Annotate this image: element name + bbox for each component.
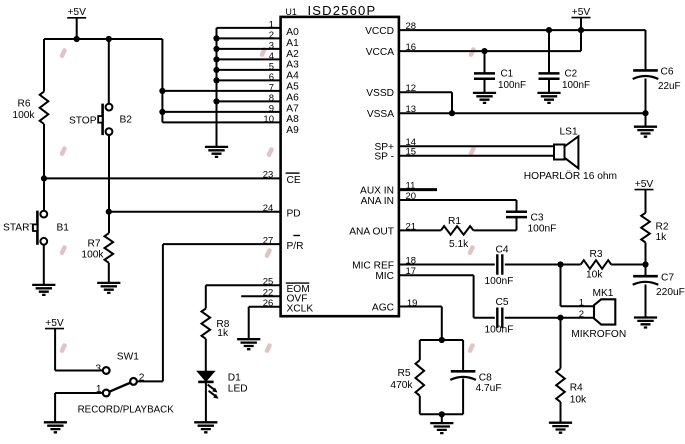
svg-text:+5V: +5V <box>635 179 654 190</box>
svg-text:100nF: 100nF <box>485 325 514 336</box>
svg-text:A0: A0 <box>286 27 299 38</box>
svg-text:3: 3 <box>269 40 274 51</box>
svg-text:VCCA: VCCA <box>366 47 395 58</box>
svg-text:100nF: 100nF <box>528 224 557 235</box>
svg-text:B2: B2 <box>120 115 133 126</box>
svg-text:100nF: 100nF <box>485 276 514 287</box>
svg-text:26: 26 <box>263 298 274 309</box>
svg-text:C2: C2 <box>565 69 578 80</box>
svg-text:1: 1 <box>269 19 274 30</box>
svg-text:470k: 470k <box>390 380 413 391</box>
svg-text:MK1: MK1 <box>593 288 614 299</box>
svg-text:1: 1 <box>579 298 584 309</box>
svg-text:1k: 1k <box>217 328 229 339</box>
svg-text:C1: C1 <box>501 69 514 80</box>
svg-text:D1: D1 <box>228 373 241 384</box>
svg-text:LED: LED <box>228 384 248 395</box>
svg-text:9: 9 <box>269 103 274 114</box>
svg-text:VSSA: VSSA <box>367 109 394 120</box>
svg-text:PD: PD <box>287 208 301 219</box>
svg-text:13: 13 <box>406 104 417 115</box>
svg-text:SP -: SP - <box>374 152 394 163</box>
svg-text:C4: C4 <box>496 245 509 256</box>
svg-text:15: 15 <box>406 147 417 158</box>
svg-text:ISD2560P: ISD2560P <box>308 3 377 18</box>
svg-text:2: 2 <box>269 30 274 41</box>
svg-text:R6: R6 <box>17 99 30 110</box>
svg-text:27: 27 <box>263 235 274 246</box>
svg-text:10: 10 <box>263 114 274 125</box>
svg-text:CE: CE <box>287 175 301 186</box>
svg-text:LS1: LS1 <box>560 127 578 138</box>
svg-text:100nF: 100nF <box>498 80 526 91</box>
svg-text:STOP: STOP <box>69 116 97 127</box>
svg-text:C3: C3 <box>531 213 544 224</box>
svg-text:A8: A8 <box>286 114 299 125</box>
svg-text:4: 4 <box>269 51 274 62</box>
svg-text:R5: R5 <box>397 368 410 379</box>
svg-text:10k: 10k <box>570 395 587 406</box>
svg-text:8: 8 <box>269 93 274 104</box>
svg-text:1k: 1k <box>656 232 668 243</box>
svg-text:MIC REF: MIC REF <box>352 260 394 271</box>
svg-text:220uF: 220uF <box>656 287 685 298</box>
svg-text:A7: A7 <box>286 103 299 114</box>
svg-text:1: 1 <box>96 384 102 395</box>
svg-text:3: 3 <box>95 364 101 375</box>
svg-text:OVF: OVF <box>287 293 308 304</box>
svg-text:R2: R2 <box>656 222 669 233</box>
svg-text:28: 28 <box>406 21 417 32</box>
svg-text:VSSD: VSSD <box>366 88 394 99</box>
svg-text:21: 21 <box>406 221 417 232</box>
svg-text:100k: 100k <box>81 250 104 261</box>
svg-text:A9: A9 <box>286 125 299 136</box>
svg-text:24: 24 <box>263 203 274 214</box>
svg-text:AUX IN: AUX IN <box>360 186 394 197</box>
svg-text:START: START <box>3 223 35 234</box>
svg-text:SW1: SW1 <box>117 352 139 363</box>
svg-text:23: 23 <box>263 170 274 181</box>
svg-text:XCLK: XCLK <box>287 304 314 315</box>
svg-text:100nF: 100nF <box>562 80 590 91</box>
svg-text:A3: A3 <box>286 60 299 71</box>
svg-text:10k: 10k <box>586 270 603 281</box>
svg-text:A2: A2 <box>286 49 299 60</box>
svg-text:C6: C6 <box>661 67 674 78</box>
svg-text:25: 25 <box>263 277 274 288</box>
svg-text:R7: R7 <box>87 239 100 250</box>
svg-text:U1: U1 <box>286 7 297 17</box>
svg-text:2: 2 <box>579 309 584 320</box>
svg-text:R4: R4 <box>570 383 583 394</box>
svg-text:RECORD/PLAYBACK: RECORD/PLAYBACK <box>78 405 175 416</box>
svg-text:5.1k: 5.1k <box>449 239 469 250</box>
svg-text:MIC: MIC <box>375 271 394 282</box>
svg-text:R1: R1 <box>448 216 461 227</box>
svg-text:22uF: 22uF <box>658 81 681 92</box>
svg-text:+5V: +5V <box>45 318 64 329</box>
svg-text:17: 17 <box>406 266 417 277</box>
svg-text:HOPARLÖR 16 ohm: HOPARLÖR 16 ohm <box>524 170 617 182</box>
svg-text:AGC: AGC <box>372 302 394 313</box>
svg-text:C7: C7 <box>661 273 674 284</box>
svg-text:2: 2 <box>139 373 145 384</box>
svg-text:5: 5 <box>269 61 274 72</box>
svg-text:ANA IN: ANA IN <box>361 196 394 207</box>
svg-text:22: 22 <box>263 288 274 299</box>
svg-text:+5V: +5V <box>572 7 591 18</box>
svg-text:C5: C5 <box>496 297 509 308</box>
svg-text:19: 19 <box>407 298 418 309</box>
svg-text:18: 18 <box>406 255 417 266</box>
svg-text:A1: A1 <box>286 38 299 49</box>
svg-text:P/R: P/R <box>287 241 304 252</box>
svg-text:VCCD: VCCD <box>365 26 394 37</box>
svg-text:B1: B1 <box>57 223 70 234</box>
svg-text:R3: R3 <box>590 249 603 260</box>
svg-text:A4: A4 <box>286 71 299 82</box>
svg-text:MIKROFON: MIKROFON <box>571 329 626 340</box>
svg-text:A6: A6 <box>286 92 299 103</box>
svg-text:100k: 100k <box>12 110 35 121</box>
svg-text:20: 20 <box>406 191 417 202</box>
svg-text:4.7uF: 4.7uF <box>476 383 502 394</box>
svg-text:12: 12 <box>406 83 417 94</box>
svg-text:6: 6 <box>269 72 274 83</box>
svg-text:+5V: +5V <box>67 7 86 18</box>
svg-text:C8: C8 <box>479 373 492 384</box>
svg-text:7: 7 <box>269 82 274 93</box>
svg-text:A5: A5 <box>286 82 299 93</box>
svg-text:ANA OUT: ANA OUT <box>349 226 394 237</box>
svg-text:11: 11 <box>406 181 416 192</box>
svg-text:16: 16 <box>406 42 417 53</box>
